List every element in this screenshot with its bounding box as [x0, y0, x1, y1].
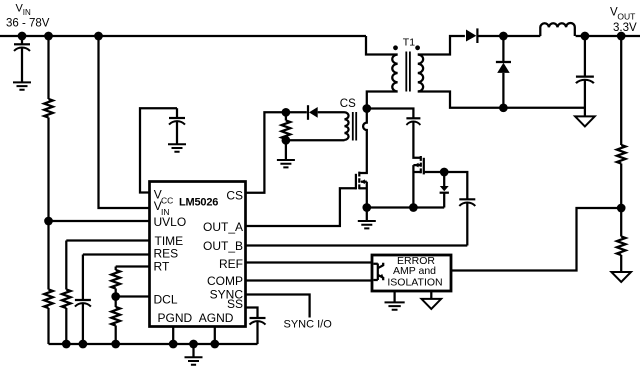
wire SYNC stub: [246, 295, 310, 318]
wire UVLO divider upper lead: [47, 36, 49, 99]
wire RES to IC: [83, 253, 150, 255]
ground below R6: [277, 140, 295, 167]
box IC LM5026: [150, 182, 246, 327]
transistor Q2 clamp p-FET: [413, 122, 444, 208]
svg-text:3.3V: 3.3V: [613, 22, 637, 34]
phase dot primary: [393, 45, 398, 50]
inductor L1 output: [540, 23, 575, 36]
svg-text:LM5026: LM5026: [179, 196, 218, 208]
wire secondary top to rectifier: [418, 36, 465, 55]
svg-text:T1: T1: [403, 37, 415, 49]
node clamp source: [409, 203, 418, 212]
label error amp: [387, 255, 442, 288]
wire SS pin to soft-start cap: [246, 308, 258, 319]
wire R4 to DCL node: [115, 289, 117, 308]
capacitor C1 input: [14, 36, 30, 82]
svg-text:COMP: COMP: [207, 274, 243, 288]
capacitor C4 soft-start: [250, 318, 266, 344]
svg-text:SYNC I/O: SYNC I/O: [284, 319, 333, 331]
ground below error amp: [385, 291, 405, 310]
resistor R5 RT lower: [111, 307, 120, 326]
wire R1 to UVLO node: [47, 118, 49, 290]
wire secondary return rail: [418, 92, 585, 108]
node main source: [362, 203, 371, 212]
node rail C3: [79, 340, 88, 349]
svg-text:ISOLATION: ISOLATION: [387, 276, 442, 288]
wire gate node to coupling cap: [444, 172, 467, 199]
ground below main source: [358, 208, 376, 229]
node switch output: [499, 32, 508, 41]
node input rail / input cap: [18, 32, 27, 41]
node freewheel anode: [499, 103, 508, 112]
resistor R2 UVLO lower: [44, 290, 53, 309]
diode D5 freewheel: [496, 36, 511, 108]
svg-text:CS: CS: [226, 188, 243, 202]
wire DCL to IC: [116, 295, 150, 297]
svg-text:SS: SS: [227, 297, 243, 311]
wire TIME to IC: [66, 239, 150, 241]
wire top rail to primary: [366, 36, 398, 55]
svg-text:CC: CC: [161, 195, 173, 205]
svg-text:REF: REF: [219, 257, 243, 271]
svg-text:DCL: DCL: [154, 293, 178, 307]
ground triangle below error amp: [422, 291, 442, 309]
resistor R6 current sense: [282, 112, 291, 140]
svg-text:AGND: AGND: [199, 311, 234, 325]
node CS sense bottom: [282, 136, 291, 145]
node output cap: [581, 32, 590, 41]
wire feedback to error amp: [451, 208, 621, 271]
wire CS winding bottom to R6: [286, 139, 345, 141]
diode D2 sense rectifier: [308, 105, 345, 120]
pin VIN: [154, 199, 170, 217]
svg-text:RT: RT: [154, 260, 170, 274]
wire clamp branch top: [367, 109, 414, 119]
wire input rail VIN: [0, 35, 366, 37]
resistor R4 RT upper: [111, 270, 120, 289]
node DCL: [111, 292, 120, 301]
wire UVLO to IC: [49, 220, 151, 222]
node rail R5: [111, 340, 120, 349]
label VIN: [6, 2, 50, 29]
resistor R3 TIME: [62, 290, 71, 309]
ground below C1: [13, 82, 31, 89]
wire AGND pin to rail: [214, 327, 216, 344]
wire VIN line to IC: [99, 36, 151, 208]
wire TIME chain upper: [65, 241, 67, 290]
transformer CS sense winding: [345, 112, 349, 140]
svg-text:OUT_A: OUT_A: [203, 220, 243, 234]
transformer T1 primary winding: [392, 55, 397, 92]
wire OUT_B to coupling cap: [246, 244, 467, 246]
transformer T1 secondary winding: [418, 55, 423, 92]
resistor R7 divider upper: [617, 145, 626, 164]
diode D3 gate clamp: [440, 172, 449, 208]
ground triangle below divider: [611, 272, 631, 282]
label VOUT: [610, 7, 637, 35]
pin VCC: [154, 188, 173, 206]
svg-text:CS: CS: [340, 98, 356, 110]
capacitor C6 gate coupling: [459, 199, 475, 245]
node rail R3: [62, 340, 71, 349]
wire PGND pin to rail: [172, 327, 174, 344]
wire RT to IC: [116, 265, 150, 267]
svg-text:UVLO: UVLO: [154, 215, 187, 229]
wire divider middle: [620, 164, 622, 237]
capacitor C2 VCC bypass: [169, 108, 185, 144]
ground below C2: [168, 144, 186, 151]
capacitor C3 RES: [75, 300, 91, 344]
transformer T1 core: [406, 52, 410, 92]
node clamp gate: [440, 168, 449, 177]
svg-text:PGND: PGND: [158, 311, 193, 325]
wire CS pin to sense network: [246, 112, 286, 193]
ground triangle below output cap: [575, 116, 595, 126]
resistor R8 divider lower: [617, 237, 626, 256]
phase dot secondary: [415, 45, 420, 50]
wire OUT_A to main gate: [246, 188, 356, 226]
wire VCC pin to bypass cap: [140, 108, 177, 192]
optocoupler icon: [374, 263, 384, 281]
wire output rail: [576, 35, 640, 37]
wire RT chain upper: [115, 267, 117, 271]
wire primary bottom to MOSFET drain with CS turn: [359, 92, 397, 174]
node UVLO: [44, 217, 53, 226]
ground rail below IC: [49, 343, 258, 345]
wire divider lower lead: [620, 255, 622, 272]
ground main below rail: [185, 344, 203, 365]
wire node to diode D2: [286, 111, 307, 113]
wire R5 to ground rail: [115, 326, 117, 345]
svg-text:IN: IN: [23, 8, 31, 17]
wire VOUT divider upper: [620, 36, 622, 145]
node rail AGND: [210, 340, 219, 349]
diode D4 forward rectifier: [466, 28, 540, 43]
wire COMP to error amp: [246, 279, 372, 281]
wire R3 to ground rail: [65, 308, 67, 344]
transformer CS core: [353, 112, 356, 141]
node rail PGND: [169, 340, 178, 349]
svg-text:36 - 78V: 36 - 78V: [6, 18, 50, 30]
wire source rail: [367, 206, 444, 208]
wire REF to error amp: [246, 261, 372, 263]
node input rail / UVLO divider: [44, 32, 53, 41]
svg-text:RES: RES: [154, 246, 179, 260]
capacitor C7 clamp: [406, 118, 420, 125]
svg-text:OUT_B: OUT_B: [203, 239, 243, 253]
box error amp: [372, 255, 451, 291]
resistor R1 UVLO upper: [44, 99, 53, 118]
capacitor C5 output: [576, 36, 594, 116]
node rail main ground: [189, 340, 198, 349]
node input rail / VIN line: [94, 32, 103, 41]
wire R2 to ground rail: [47, 308, 49, 344]
transistor Q1 main MOSFET: [356, 172, 367, 208]
node CS sense top: [282, 108, 291, 117]
node feedback: [617, 204, 626, 213]
node VOUT sense: [617, 32, 626, 41]
wire RES chain upper: [82, 255, 84, 301]
node primary bottom / clamp branch: [362, 104, 371, 113]
svg-text:OUT: OUT: [617, 12, 635, 22]
